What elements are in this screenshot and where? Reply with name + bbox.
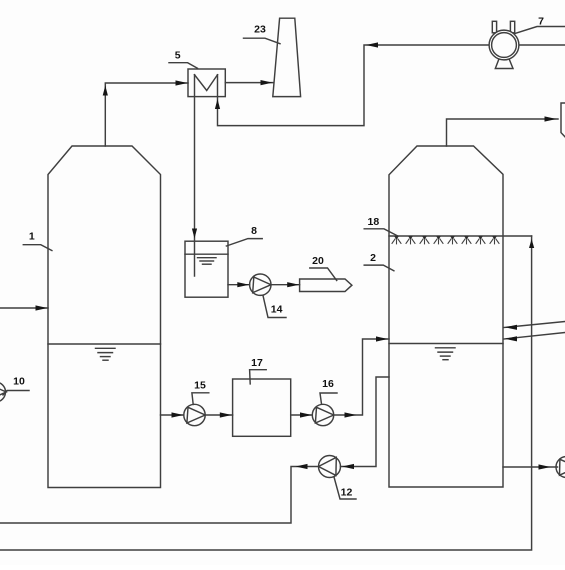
wire: pump 15 to box 17 bbox=[205, 414, 232, 416]
vessel 2 (scrubber tower) bbox=[389, 146, 503, 487]
leader label 15 bbox=[192, 393, 209, 405]
flow arrows (solid) bbox=[36, 42, 557, 469]
svg-text:2: 2 bbox=[370, 252, 376, 264]
water level symbol vessel 2 bbox=[436, 348, 456, 360]
arrow into vessel 2 lower right bbox=[505, 336, 517, 341]
arrow into vessel 1 bbox=[36, 305, 48, 310]
water level symbol tank 8 bbox=[198, 258, 217, 265]
box 17 bbox=[233, 379, 291, 436]
leader label 1 bbox=[23, 245, 52, 251]
wire: pump 16 up into vessel 2 bbox=[334, 339, 389, 415]
spray nozzle bbox=[448, 236, 458, 244]
tank 8 bbox=[185, 241, 228, 297]
svg-text:1: 1 bbox=[29, 231, 35, 243]
wire: pump 14 to arrow 20 bbox=[271, 284, 300, 286]
leader label 20 bbox=[310, 268, 337, 281]
wire: tank 8 to pump 14 bbox=[228, 284, 250, 286]
svg-text:18: 18 bbox=[368, 216, 380, 228]
leader label 16 bbox=[320, 393, 337, 404]
pump 16 bbox=[312, 404, 333, 425]
pump 10 (cut at left edge) bbox=[0, 382, 6, 402]
vessel 1 (absorption tower) bbox=[48, 146, 161, 488]
liquid level line vessel 2 bbox=[389, 343, 503, 345]
right vessel (demister, cut at right edge) bbox=[561, 103, 565, 137]
wire: heat exchanger hot-side inlet path from fan bbox=[218, 45, 565, 126]
wire: spray riser down to bottom line bbox=[0, 236, 532, 550]
arrow left from fan to elbow bbox=[366, 42, 378, 47]
wire: flue gas inlet into vessel 1 bbox=[0, 307, 48, 309]
arrow up vessel 1 riser bbox=[103, 86, 108, 96]
svg-text:5: 5 bbox=[175, 50, 181, 62]
leader label 12 bbox=[334, 477, 356, 499]
pump 11 (cut at right edge) bbox=[556, 457, 565, 478]
svg-text:7: 7 bbox=[538, 16, 544, 28]
arrow into pump 12 bbox=[342, 464, 354, 469]
wire: vessel 2 left outlet down to pump 12 bbox=[341, 377, 390, 467]
wire: slurry inlet lower right bbox=[504, 333, 565, 340]
leader label 18 bbox=[364, 229, 397, 236]
arrow after pump 16 bbox=[345, 412, 357, 417]
arrow into chimney bbox=[261, 80, 273, 85]
arrow into pump 16 bbox=[300, 412, 312, 417]
arrow up spray riser bbox=[529, 239, 534, 248]
fan 7 bbox=[489, 21, 519, 68]
arrow-shape 20 bbox=[300, 279, 352, 292]
spray nozzles row 18 bbox=[392, 236, 500, 244]
spray nozzle bbox=[476, 236, 486, 244]
wire: vessel 1 outlet to pump 15 bbox=[161, 414, 184, 416]
svg-text:23: 23 bbox=[254, 24, 266, 36]
water level symbol vessel 1 bbox=[96, 348, 116, 360]
spray header 18 bbox=[389, 235, 532, 237]
wire: heat exchanger to chimney bbox=[225, 82, 273, 84]
arrow into demister bbox=[545, 116, 557, 121]
heat exchanger M internals bbox=[195, 75, 218, 91]
spray nozzle bbox=[490, 236, 500, 244]
wire: box 17 to pump 16 bbox=[291, 414, 313, 416]
leader label 7 bbox=[515, 27, 565, 34]
arrow into vessel 2 left bbox=[376, 336, 388, 341]
wire: pump 12 outlet to bottom-left line bbox=[0, 467, 319, 524]
leader label 10 bbox=[3, 391, 29, 396]
chimney 23 bbox=[273, 18, 301, 96]
wire: heat exchanger left tube down into tank 8 bbox=[194, 75, 196, 276]
svg-text:10: 10 bbox=[13, 376, 25, 388]
liquid level line vessel 1 bbox=[48, 343, 161, 345]
leader label 14 bbox=[263, 296, 286, 318]
wire: vessel 1 top riser bbox=[105, 83, 188, 146]
leader label 2 bbox=[364, 265, 394, 271]
leader label 5 bbox=[169, 63, 198, 69]
wire: slurry inlet upper right bbox=[504, 322, 565, 328]
spray nozzle bbox=[434, 236, 444, 244]
pump 15 bbox=[184, 404, 205, 425]
wire: vessel 2 right outlet to pump 11 bbox=[503, 466, 558, 468]
spray nozzle bbox=[462, 236, 472, 244]
arrow into vessel 2 upper right bbox=[505, 325, 517, 330]
arrow into pump 15 bbox=[172, 412, 184, 417]
leader label 23 bbox=[244, 38, 281, 44]
heat exchanger U5 box bbox=[188, 69, 225, 97]
svg-text:20: 20 bbox=[312, 255, 324, 267]
arrow out of pump 12 bbox=[296, 464, 308, 469]
arrow into arrow-shape 20 bbox=[287, 282, 299, 287]
pump 14 bbox=[250, 274, 271, 295]
pump 12 bbox=[319, 456, 341, 478]
svg-text:15: 15 bbox=[194, 380, 206, 392]
wire: vessel 2 top riser to demister bbox=[447, 119, 559, 146]
arrow up into heat exchanger hot side bbox=[215, 99, 220, 109]
arrow into pump 14 bbox=[237, 282, 249, 287]
spray nozzle bbox=[420, 236, 430, 244]
svg-text:17: 17 bbox=[251, 357, 263, 369]
arrow into heat exchanger bbox=[176, 80, 188, 85]
leader label 8 bbox=[226, 239, 262, 246]
svg-text:12: 12 bbox=[341, 487, 353, 499]
spray nozzle bbox=[392, 236, 402, 244]
liquid level line tank 8 bbox=[185, 253, 228, 255]
svg-text:14: 14 bbox=[271, 304, 283, 316]
arrow into box 17 bbox=[220, 412, 232, 417]
svg-text:16: 16 bbox=[322, 378, 334, 390]
spray nozzle bbox=[406, 236, 416, 244]
arrow down into tank 8 bbox=[192, 229, 197, 239]
arrow into pump 11 bbox=[539, 464, 551, 469]
leader label 17 bbox=[250, 370, 267, 384]
svg-text:8: 8 bbox=[251, 225, 257, 237]
